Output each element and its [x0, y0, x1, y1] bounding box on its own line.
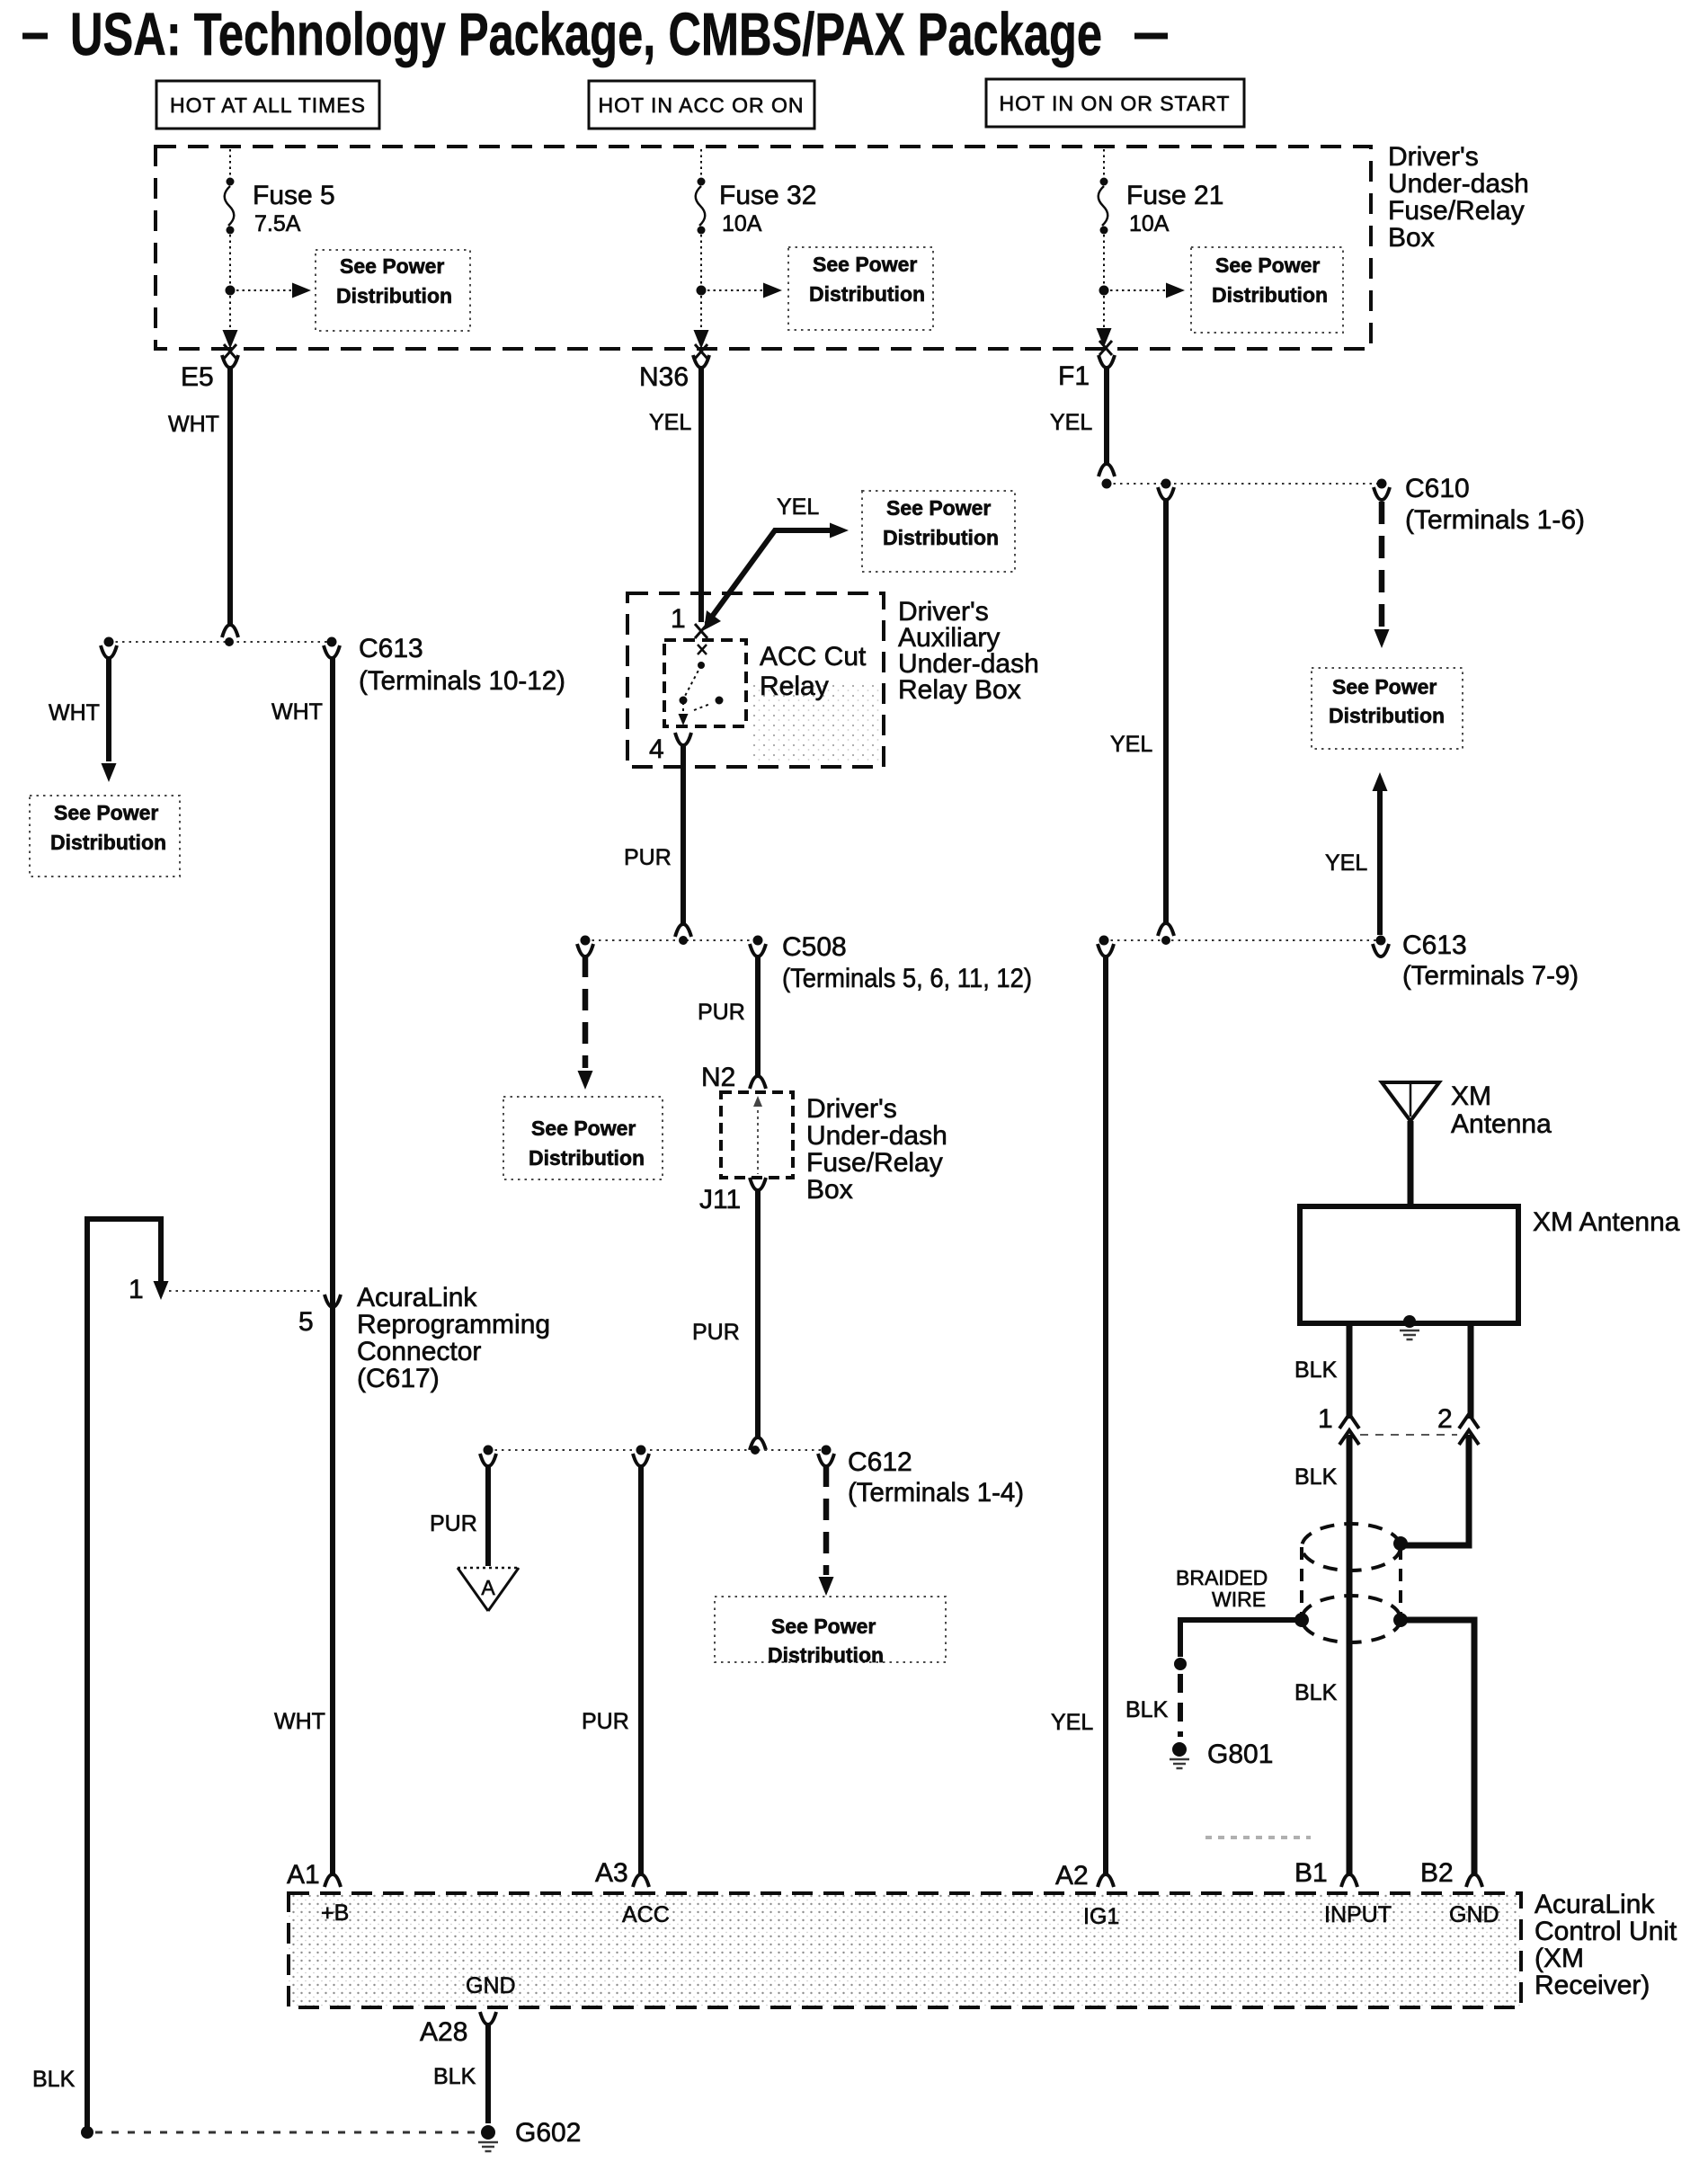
svg-text:See Power: See Power: [1215, 254, 1320, 277]
label BRAIDED WIRE: [1176, 1566, 1268, 1611]
svg-text:GND: GND: [466, 1973, 516, 1998]
node junction line C612: [484, 1446, 832, 1455]
svg-text:G602: G602: [515, 2118, 581, 2148]
svg-text:PUR: PUR: [582, 1709, 629, 1734]
svg-text:YEL: YEL: [649, 410, 691, 435]
node dashed link connector 1-2: [1360, 1434, 1457, 1436]
svg-text:+B: +B: [321, 1900, 349, 1926]
svg-text:BLK: BLK: [1294, 1680, 1338, 1705]
wire fuse 32 to box edge: [700, 296, 702, 342]
svg-text:J11: J11: [699, 1185, 741, 1215]
svg-text:BLK: BLK: [32, 2067, 76, 2092]
wire dashed branch to See Power Distribution (left of C508): [577, 944, 593, 1090]
pin A3 ACC: [595, 1858, 670, 1927]
svg-text:BLK: BLK: [1125, 1697, 1169, 1722]
arrow fuse 21 to See Power Distribution: [1110, 283, 1185, 298]
svg-text:Distribution: Distribution: [336, 284, 452, 307]
XM Antenna box: [1300, 1206, 1680, 1323]
wire YEL F1: [1050, 366, 1115, 476]
svg-text:(Terminals 5, 6, 11, 12): (Terminals 5, 6, 11, 12): [782, 964, 1032, 993]
svg-text:USA: Technology Package, CMBS/: USA: Technology Package, CMBS/PAX Packag…: [70, 1, 1102, 68]
XM antenna symbol: [1382, 1081, 1552, 1206]
connector C613 (Terminals 7-9): [1373, 930, 1579, 991]
svg-text:Fuse 32: Fuse 32: [719, 181, 816, 210]
ground at XM Antenna box: [1400, 1315, 1419, 1339]
wire BLK hook (pin 1 loop): [32, 1219, 169, 2129]
svg-text:ACC Cut: ACC Cut: [760, 642, 867, 672]
wire YEL N36 to relay pin 1: [649, 366, 701, 622]
svg-text:BRAIDED: BRAIDED: [1176, 1566, 1268, 1589]
wire YEL IG1 to A2: [1051, 944, 1114, 1887]
pin A1 +B: [287, 1860, 349, 1926]
svg-text:YEL: YEL: [1325, 850, 1367, 876]
connector N36: [639, 344, 709, 392]
svg-text:Relay Box: Relay Box: [898, 675, 1021, 705]
svg-text:A28: A28: [420, 2017, 467, 2047]
See Power Distribution box 7 (below C612): [715, 1597, 946, 1667]
svg-text:B2: B2: [1420, 1858, 1454, 1888]
svg-text:XM: XM: [1451, 1081, 1491, 1111]
wire PUR to node A: [430, 1454, 496, 1566]
svg-text:See Power: See Power: [1332, 675, 1437, 698]
See Power Distribution box 5 (upper right of relay): [862, 491, 1015, 572]
svg-text:YEL: YEL: [1110, 732, 1152, 757]
svg-text:PUR: PUR: [624, 845, 672, 870]
svg-text:See Power: See Power: [771, 1615, 876, 1638]
svg-text:HOT IN ON OR START: HOT IN ON OR START: [1000, 92, 1231, 115]
box Driver's Under-dash Fuse/Relay Box (top): [156, 147, 1371, 349]
svg-text:(Terminals 1-6): (Terminals 1-6): [1405, 505, 1585, 535]
svg-text:Box: Box: [1388, 223, 1435, 253]
svg-text:Reprogramming: Reprogramming: [357, 1310, 550, 1339]
svg-text:C610: C610: [1405, 474, 1470, 503]
relay ACC Cut Relay: [649, 604, 867, 764]
svg-text:N2: N2: [701, 1063, 735, 1092]
node junction line below F1: [1102, 479, 1387, 489]
svg-text:Distribution: Distribution: [1212, 283, 1328, 307]
svg-text:10A: 10A: [1129, 211, 1170, 236]
svg-text:7.5A: 7.5A: [254, 211, 301, 236]
svg-text:Fuse 21: Fuse 21: [1126, 181, 1223, 210]
svg-text:C612: C612: [848, 1447, 912, 1477]
wire BLK XM box right lead: [1468, 1323, 1474, 1419]
svg-text:PUR: PUR: [698, 1000, 745, 1025]
label Driver's Under-dash Fuse/Relay Box: [1388, 142, 1529, 253]
svg-text:(Terminals 10-12): (Terminals 10-12): [359, 666, 565, 696]
box AcuraLink Control Unit (XM Receiver): [289, 1893, 1521, 2007]
connector 1 (inline): [1318, 1404, 1359, 1445]
node dot bottom left: [81, 2126, 93, 2139]
wire YEL relay pin 1 to See Power Distribution: [704, 494, 849, 630]
svg-text:Antenna: Antenna: [1451, 1109, 1552, 1139]
wire fuse 5 to box edge: [229, 296, 231, 342]
svg-text:1: 1: [1318, 1404, 1333, 1434]
connector 2 (inline): [1437, 1404, 1479, 1445]
node junction line C613 lower: [1099, 936, 1386, 946]
pin A28 GND: [420, 1973, 516, 2047]
wire BLK B2 gnd (right, through braided shield): [1404, 1435, 1482, 1887]
svg-text:4: 4: [649, 734, 664, 764]
connector C612 (Terminals 1-4): [818, 1447, 1024, 1596]
header box HOT IN ON OR START: [986, 79, 1244, 127]
svg-text:See Power: See Power: [340, 254, 444, 278]
svg-text:IG1: IG1: [1083, 1904, 1119, 1929]
wire BLK A28 to G602: [433, 2023, 488, 2123]
svg-text:Under-dash: Under-dash: [806, 1121, 947, 1151]
wire BLK XM box left lead: [1294, 1323, 1349, 1419]
wire PUR relay pin 4 to C508: [624, 743, 691, 937]
svg-text:B1: B1: [1294, 1858, 1328, 1888]
box Driver's Auxiliary Under-dash Relay Box: [627, 593, 884, 767]
wire fuse 21 to box edge: [1103, 296, 1105, 340]
label AcuraLink Control Unit (XM Receiver): [1535, 1890, 1677, 2000]
See Power Distribution box 4 (lower left): [30, 796, 180, 876]
pin A2 IG1: [1055, 1861, 1119, 1929]
svg-text:Distribution: Distribution: [50, 831, 166, 854]
svg-text:See Power: See Power: [531, 1117, 636, 1140]
svg-text:Relay: Relay: [760, 672, 829, 701]
svg-text:See Power: See Power: [886, 496, 991, 520]
svg-text:C613: C613: [1402, 930, 1467, 960]
svg-text:BLK: BLK: [1294, 1357, 1338, 1383]
svg-text:Connector: Connector: [357, 1337, 481, 1366]
svg-text:Control Unit: Control Unit: [1535, 1917, 1677, 1946]
svg-text:Fuse/Relay: Fuse/Relay: [1388, 196, 1525, 226]
wire dotted bottom run to G602: [95, 2131, 477, 2134]
svg-text:5: 5: [298, 1307, 314, 1337]
svg-text:(C617): (C617): [357, 1364, 440, 1393]
wire BLK B1 input: [1294, 1435, 1357, 1887]
svg-text:1: 1: [129, 1275, 144, 1304]
svg-text:A: A: [481, 1576, 495, 1599]
svg-text:C508: C508: [782, 932, 847, 962]
svg-text:1: 1: [671, 604, 686, 634]
svg-text:Receiver): Receiver): [1535, 1971, 1650, 2000]
svg-text:Driver's: Driver's: [806, 1094, 897, 1124]
wire YEL up arrow to See Power Distribution: [1325, 772, 1388, 935]
node faint unused stub: [1205, 1836, 1311, 1839]
svg-text:E5: E5: [181, 362, 214, 392]
node dotted link pin1 to pin5: [169, 1290, 324, 1292]
svg-text:Distribution: Distribution: [809, 282, 925, 306]
svg-text:AcuraLink: AcuraLink: [357, 1283, 477, 1312]
svg-text:A2: A2: [1055, 1861, 1089, 1891]
svg-text:Box: Box: [806, 1175, 853, 1205]
node A (triangle): [458, 1568, 519, 1611]
wire E5 WHT: [168, 366, 238, 637]
junction dot fuse 5: [226, 286, 236, 296]
svg-text:F1: F1: [1058, 361, 1090, 391]
See Power Distribution box 2: [788, 247, 933, 330]
connector C613 (Terminals 10-12): [271, 634, 565, 725]
junction dot fuse 21: [1099, 286, 1109, 296]
arrow fuse 5 to See Power Distribution: [236, 283, 311, 298]
connector pin 5 AcuraLink Reprogramming Connector: [298, 1295, 341, 1337]
fuse Fuse 5 7.5A: [225, 149, 335, 286]
wire PUR to A3: [582, 1454, 649, 1887]
svg-text:PUR: PUR: [692, 1320, 740, 1345]
svg-text:WHT: WHT: [274, 1709, 325, 1734]
svg-text:YEL: YEL: [777, 494, 819, 520]
svg-text:Under-dash: Under-dash: [1388, 169, 1529, 199]
svg-text:(Terminals 7-9): (Terminals 7-9): [1402, 961, 1579, 991]
pin B1 INPUT: [1294, 1858, 1392, 1927]
svg-text:(XM: (XM: [1535, 1944, 1584, 1973]
wire YEL junction to C613 lower junction: [1110, 487, 1174, 936]
connector C610 (Terminals 1-6): [1374, 474, 1585, 648]
label AcuraLink Reprogramming Connector (C617): [357, 1283, 550, 1393]
arrow fuse 32 to See Power Distribution: [707, 283, 782, 298]
svg-text:ACC: ACC: [622, 1902, 670, 1927]
box Driver's Under-dash Fuse/Relay Box (small, N2-J11): [721, 1092, 793, 1178]
ground G602: [478, 2118, 581, 2151]
connector C508 (Terminals 5, 6, 11, 12): [750, 932, 1032, 993]
See Power Distribution box 1: [316, 250, 470, 331]
ground G801: [1170, 1740, 1273, 1769]
svg-text:YEL: YEL: [1050, 410, 1092, 435]
svg-text:WHT: WHT: [49, 700, 100, 725]
svg-text:See Power: See Power: [813, 253, 917, 276]
svg-text:(Terminals 1-4): (Terminals 1-4): [848, 1478, 1024, 1508]
svg-text:XM Antenna: XM Antenna: [1533, 1207, 1680, 1237]
label Driver's Under-dash Fuse/Relay Box (small): [806, 1094, 947, 1205]
svg-text:See Power: See Power: [54, 801, 158, 824]
svg-text:GND: GND: [1449, 1902, 1499, 1927]
svg-text:WHT: WHT: [168, 412, 219, 437]
wire PUR J11 to C612 junction: [692, 1178, 766, 1450]
svg-text:Distribution: Distribution: [529, 1146, 645, 1170]
fuse Fuse 21 10A: [1099, 149, 1224, 286]
svg-text:INPUT: INPUT: [1324, 1902, 1392, 1927]
title: [22, 1, 1168, 68]
braided wire shield (cylinder): [1302, 1524, 1401, 1642]
svg-text:N36: N36: [639, 362, 689, 392]
svg-text:A3: A3: [595, 1858, 628, 1888]
svg-text:AcuraLink: AcuraLink: [1535, 1890, 1655, 1919]
wire WHT C613 to A1: [274, 656, 341, 1887]
svg-text:C613: C613: [359, 634, 423, 663]
svg-text:G801: G801: [1207, 1740, 1273, 1769]
header box HOT IN ACC OR ON: [589, 81, 814, 129]
svg-text:2: 2: [1437, 1404, 1453, 1434]
svg-text:BLK: BLK: [1294, 1464, 1338, 1490]
See Power Distribution box 8 (right): [1312, 668, 1463, 749]
svg-text:Distribution: Distribution: [768, 1643, 884, 1667]
svg-text:Fuse 5: Fuse 5: [253, 181, 335, 210]
wire WHT left branch to See Power Distribution: [49, 645, 117, 782]
svg-text:WHT: WHT: [271, 699, 323, 725]
fuse Fuse 32 10A: [696, 149, 817, 286]
header box HOT AT ALL TIMES: [156, 81, 379, 129]
connector F1: [1058, 341, 1115, 391]
node junction line C508: [581, 936, 763, 946]
pin B2 GND: [1420, 1858, 1499, 1927]
label Driver's Auxiliary Under-dash Relay Box: [898, 597, 1039, 705]
svg-text:WIRE: WIRE: [1212, 1588, 1266, 1611]
svg-text:HOT IN ACC OR ON: HOT IN ACC OR ON: [599, 93, 805, 117]
svg-text:BLK: BLK: [433, 2064, 476, 2089]
See Power Distribution box 3: [1191, 247, 1343, 333]
node junction line below E5: [104, 637, 337, 647]
svg-text:HOT AT ALL TIMES: HOT AT ALL TIMES: [170, 93, 366, 117]
wire PUR C508 to N2: [698, 955, 766, 1092]
svg-text:PUR: PUR: [430, 1511, 477, 1536]
svg-text:YEL: YEL: [1051, 1710, 1093, 1735]
junction dot fuse 32: [697, 286, 707, 296]
svg-text:A1: A1: [287, 1860, 320, 1890]
node dots on braided shield: [1393, 1536, 1408, 1551]
svg-text:Fuse/Relay: Fuse/Relay: [806, 1148, 943, 1178]
svg-text:Distribution: Distribution: [883, 526, 999, 549]
connector E5: [181, 344, 238, 392]
svg-text:Distribution: Distribution: [1329, 704, 1445, 727]
wire BLK braided shield to G801: [1125, 1620, 1303, 1737]
svg-text:10A: 10A: [722, 211, 762, 236]
See Power Distribution box 6 (middle): [503, 1097, 663, 1179]
svg-text:Driver's: Driver's: [1388, 142, 1479, 172]
